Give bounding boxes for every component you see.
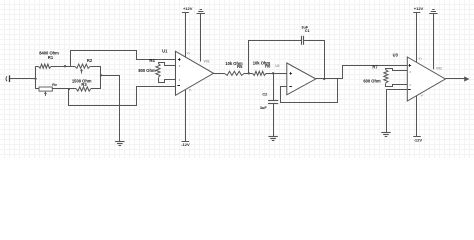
svg-text:R6: R6 (265, 64, 271, 69)
svg-text:3uF: 3uF (260, 106, 267, 110)
svg-text:U2: U2 (275, 64, 279, 68)
svg-text:V+: V+ (187, 51, 191, 55)
svg-text:C1: C1 (305, 29, 310, 33)
svg-text:V01: V01 (204, 59, 210, 63)
svg-text:V-: V- (189, 88, 192, 92)
svg-text:R7: R7 (372, 64, 378, 69)
svg-text:V+: V+ (418, 57, 422, 61)
svg-text:V02: V02 (436, 67, 442, 71)
svg-text:V-: V- (421, 94, 424, 98)
svg-text:U3: U3 (393, 53, 399, 58)
svg-text:600 Ohm: 600 Ohm (363, 79, 381, 84)
svg-text:R3: R3 (81, 82, 87, 87)
svg-text:+12V: +12V (183, 6, 193, 11)
svg-text:-12V: -12V (181, 142, 190, 147)
svg-text:U1: U1 (162, 49, 168, 54)
svg-text:R1: R1 (48, 55, 54, 60)
svg-text:R2: R2 (87, 58, 93, 63)
svg-text:-12V: -12V (414, 138, 423, 143)
svg-text:C2: C2 (262, 93, 267, 97)
svg-text:R5: R5 (237, 64, 243, 69)
svg-text:800 Ohm: 800 Ohm (138, 68, 156, 73)
svg-text:+12V: +12V (414, 6, 424, 11)
svg-text:R4: R4 (149, 58, 155, 63)
